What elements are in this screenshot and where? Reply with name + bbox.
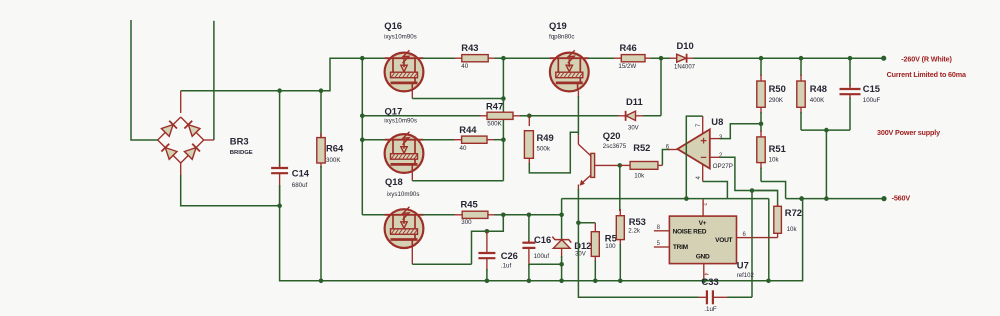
capacitor C33 xyxy=(698,296,707,298)
wire xyxy=(825,130,827,199)
svg-text:40: 40 xyxy=(460,145,467,152)
wire xyxy=(361,58,363,215)
ic U7 (ref102) xyxy=(669,216,736,264)
svg-text:R47: R47 xyxy=(486,100,503,111)
svg-text:10k: 10k xyxy=(787,226,798,233)
svg-text:TRIM: TRIM xyxy=(673,244,689,251)
resistor R64 xyxy=(320,91,322,138)
wire xyxy=(561,199,563,215)
resistor R51 xyxy=(760,124,762,132)
svg-text:R53: R53 xyxy=(629,216,646,227)
node R47 right / R49 top xyxy=(527,114,532,119)
node Q16 source / vertical B xyxy=(501,96,506,101)
diode D11 (zener 30V) xyxy=(618,115,627,117)
transistor Q17 xyxy=(362,139,385,141)
wire xyxy=(660,58,662,116)
node C16 top xyxy=(527,213,532,218)
wire xyxy=(423,139,455,141)
svg-text:ixys10m90s: ixys10m90s xyxy=(384,118,417,125)
wire xyxy=(495,57,504,59)
svg-text:100uF: 100uF xyxy=(863,97,881,104)
resistor R50 xyxy=(760,58,762,76)
svg-text:C14: C14 xyxy=(292,168,310,179)
svg-text:U7: U7 xyxy=(737,259,749,270)
op-amp U8 xyxy=(677,129,709,168)
wire xyxy=(654,246,670,248)
wire xyxy=(472,215,504,264)
svg-text:C26: C26 xyxy=(501,250,518,261)
node -260V endpoint xyxy=(881,56,886,61)
wire xyxy=(503,57,550,59)
capacitor C16 xyxy=(528,215,530,243)
resistor R49 xyxy=(528,116,530,126)
svg-text:C16: C16 xyxy=(534,234,551,245)
resistor R46 xyxy=(621,55,645,62)
wire xyxy=(411,88,413,99)
wire xyxy=(801,129,850,131)
svg-text:300V Power supply: 300V Power supply xyxy=(877,128,940,137)
diode D10 xyxy=(670,57,677,59)
svg-text:+: + xyxy=(700,136,706,148)
svg-text:500K: 500K xyxy=(487,121,502,128)
wire xyxy=(423,214,456,216)
node R43 right xyxy=(501,56,506,61)
svg-text:BR3: BR3 xyxy=(230,136,249,147)
capacitor C26 xyxy=(486,231,488,253)
transistor Q20 xyxy=(578,144,590,155)
node C14 top xyxy=(277,88,282,93)
node C26 bottom xyxy=(485,279,490,284)
bridge diode top-left xyxy=(161,125,173,137)
svg-text:.1uF: .1uF xyxy=(704,306,717,313)
resistor R43 xyxy=(462,55,488,62)
transistor Q18 xyxy=(362,214,385,216)
node R46/D10/D11 xyxy=(659,56,664,61)
svg-text:30V: 30V xyxy=(575,252,586,258)
node -560V endpoint xyxy=(881,196,886,201)
wire xyxy=(213,21,215,140)
wire xyxy=(180,91,182,113)
node Q20 base xyxy=(618,163,623,168)
capacitor C15 xyxy=(849,58,851,86)
svg-text:GND: GND xyxy=(696,253,710,260)
wire xyxy=(702,116,704,134)
wire xyxy=(362,115,480,117)
svg-text:D10: D10 xyxy=(677,40,694,51)
svg-text:−: − xyxy=(700,152,706,164)
wire xyxy=(751,191,753,298)
svg-text:680uf: 680uf xyxy=(292,182,308,189)
svg-text:fqp8n80c: fqp8n80c xyxy=(549,33,574,40)
svg-text:100uf: 100uf xyxy=(534,253,550,260)
wire xyxy=(703,264,705,281)
node R50 top xyxy=(759,56,764,61)
node D12 / source row xyxy=(559,262,564,267)
node bridge minus / C14 bottom xyxy=(277,204,282,209)
svg-text:Q18: Q18 xyxy=(385,176,403,187)
svg-text:2: 2 xyxy=(701,203,707,206)
bridge diode top-right xyxy=(188,125,200,137)
svg-text:100: 100 xyxy=(605,243,616,250)
wire xyxy=(761,182,786,199)
transistor Q19 xyxy=(550,53,589,92)
svg-text:Current Limited to 60ma: Current Limited to 60ma xyxy=(887,70,967,79)
svg-text:R45: R45 xyxy=(461,198,478,209)
svg-text:V+: V+ xyxy=(699,220,707,227)
node row1/vertical A xyxy=(360,56,365,61)
svg-text:C15: C15 xyxy=(863,83,880,94)
resistor R45 xyxy=(462,211,488,218)
svg-text:400K: 400K xyxy=(810,97,825,104)
capacitor C14 xyxy=(279,91,281,167)
svg-text:2sc3675: 2sc3675 xyxy=(603,143,627,150)
node C26 top xyxy=(485,229,490,234)
wire xyxy=(423,57,456,59)
node R48 top xyxy=(799,56,804,61)
wire xyxy=(619,164,621,166)
svg-text:R48: R48 xyxy=(810,83,827,94)
transistor Q16 xyxy=(385,53,424,92)
svg-text:R46: R46 xyxy=(620,42,637,53)
resistor R48 xyxy=(800,58,802,76)
node C16 bottom xyxy=(527,279,532,284)
node R64 top xyxy=(319,88,324,93)
svg-text:BRIDGE: BRIDGE xyxy=(230,150,253,156)
svg-text:ixys10m90s: ixys10m90s xyxy=(387,191,420,198)
diode D12 (zener 30V) xyxy=(561,215,563,240)
wire xyxy=(662,150,669,166)
wire xyxy=(502,58,504,181)
svg-text:40: 40 xyxy=(461,63,468,70)
node R53 bottom xyxy=(618,279,623,284)
svg-text:R44: R44 xyxy=(459,124,477,135)
svg-text:C33: C33 xyxy=(702,276,719,287)
svg-text:300: 300 xyxy=(461,219,472,226)
node R48/C15 bottom riser xyxy=(824,128,829,133)
svg-text:2.2k: 2.2k xyxy=(628,228,641,235)
svg-text:U8: U8 xyxy=(711,116,723,127)
node R54 bottom xyxy=(593,279,598,284)
node U8 pin7 on net xyxy=(684,196,689,201)
wire xyxy=(710,156,722,158)
resistor R44 xyxy=(462,136,487,143)
wire xyxy=(702,164,704,181)
wire xyxy=(529,132,578,173)
svg-text:R72: R72 xyxy=(785,207,802,218)
wire xyxy=(529,263,562,265)
node U7 GND on rail A xyxy=(702,279,707,284)
node Q17 row/vertical A xyxy=(360,137,365,142)
node pin2/VOUT riser xyxy=(750,188,755,193)
node R48/C15 riser on -560V xyxy=(824,196,829,201)
bridge BR3 xyxy=(158,117,181,140)
node C15 top xyxy=(848,56,853,61)
wire xyxy=(768,199,770,281)
node R44 right xyxy=(501,137,506,142)
node D12 bottom xyxy=(559,279,564,284)
wire xyxy=(693,57,884,59)
bridge diode bottom-left xyxy=(165,148,177,160)
svg-text:1N4007: 1N4007 xyxy=(674,65,696,71)
node rail A on -560V rail xyxy=(799,196,804,201)
svg-text:D11: D11 xyxy=(626,96,643,107)
svg-text:30V: 30V xyxy=(628,125,639,131)
wire xyxy=(588,57,615,59)
svg-text:R49: R49 xyxy=(537,132,554,143)
wire xyxy=(737,237,753,239)
wire xyxy=(503,214,561,216)
wire xyxy=(180,163,182,176)
svg-text:NOISE RED: NOISE RED xyxy=(673,229,707,236)
wire xyxy=(577,185,579,191)
node net/rail A xyxy=(766,279,771,284)
wire xyxy=(786,198,884,200)
wire xyxy=(654,230,670,232)
node row3/vertical A xyxy=(360,114,365,119)
svg-text:15/2W: 15/2W xyxy=(618,63,636,70)
resistor R54 xyxy=(594,223,596,233)
svg-text:290K: 290K xyxy=(769,97,784,104)
svg-text:OP27P: OP27P xyxy=(713,163,733,170)
svg-text:R43: R43 xyxy=(461,42,478,53)
wire xyxy=(520,115,529,117)
svg-text:D12: D12 xyxy=(574,240,591,251)
svg-text:R64: R64 xyxy=(326,143,344,154)
svg-text:ref102: ref102 xyxy=(737,273,755,279)
svg-text:VOUT: VOUT xyxy=(715,237,732,244)
svg-text:10k: 10k xyxy=(769,157,780,164)
svg-text:-260V (R White): -260V (R White) xyxy=(901,54,952,63)
svg-text:ixys10m90s: ixys10m90s xyxy=(384,33,417,40)
node rail A riser on -560V xyxy=(799,196,804,201)
wire xyxy=(702,199,704,216)
svg-text:Q17: Q17 xyxy=(385,105,403,116)
wire xyxy=(131,20,158,140)
node R50/R51 pin3 xyxy=(759,122,764,127)
resistor R52 xyxy=(620,164,630,166)
wire xyxy=(752,237,778,239)
node R64 bottom xyxy=(319,279,324,284)
svg-text:300K: 300K xyxy=(326,157,341,164)
svg-text:-560V: -560V xyxy=(892,193,911,202)
wire xyxy=(362,57,385,59)
wire xyxy=(710,138,722,140)
svg-text:R51: R51 xyxy=(769,143,786,154)
svg-text:R52: R52 xyxy=(633,142,650,153)
wire xyxy=(578,222,595,224)
wire xyxy=(577,91,579,98)
node R45 right xyxy=(501,213,506,218)
bridge diode bottom-right xyxy=(184,148,196,160)
svg-text:10k: 10k xyxy=(634,172,645,179)
wire xyxy=(651,57,671,59)
svg-text:Q19: Q19 xyxy=(549,20,567,31)
wire xyxy=(411,245,413,265)
svg-text:Q16: Q16 xyxy=(384,20,402,31)
node D12 top xyxy=(559,213,564,218)
svg-text:R50: R50 xyxy=(769,83,786,94)
node R54 top on emitter line xyxy=(576,221,581,226)
svg-text:500k: 500k xyxy=(537,145,551,152)
svg-text:Q20: Q20 xyxy=(603,130,621,141)
wire xyxy=(280,199,803,281)
resistor R72 xyxy=(752,191,778,206)
wire xyxy=(411,170,413,181)
svg-text:.1uf: .1uf xyxy=(501,263,512,270)
resistor R47 xyxy=(487,112,513,119)
resistor R53 xyxy=(619,165,621,211)
